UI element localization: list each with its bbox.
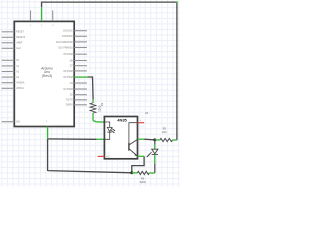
svg-text:D0/RX: D0/RX [66,105,73,107]
wire GND to opto cathode [48,138,97,140]
optocoupler U1 4N35 body [104,117,137,159]
resistor R1 220 [90,99,104,122]
wire 5V top to right rail [42,2,177,140]
label R2 1k [162,127,167,134]
svg-text:RESET2: RESET2 [16,37,26,39]
label R1 220 (rotated) [98,102,104,111]
right pins D13..D0 [74,31,87,105]
svg-text:D5 PWM: D5 PWM [63,77,72,79]
left pins RESET..N/C [2,32,15,122]
svg-text:D3 PWM: D3 PWM [63,89,72,91]
right pin labels [56,31,74,107]
label R3 220 [140,178,146,185]
opto LED arrow heads [113,129,115,133]
resistor R2 1k [155,138,177,141]
Arduino label [41,67,53,78]
svg-text:ioref: ioref [16,47,21,50]
svg-text:4N35: 4N35 [117,118,127,123]
resistor R3 220 [132,171,155,174]
arduino Uno (Rev3) module body [14,21,74,126]
svg-text:AREF: AREF [16,42,23,45]
top pin numbers [30,25,54,27]
pin base (red) [138,122,145,124]
left pin labels [16,32,26,124]
svg-text:D10 PWM/SS: D10 PWM/SS [59,47,74,49]
svg-text:D13/SCK: D13/SCK [63,31,73,33]
opto cathode stub [96,138,104,140]
pin emitter (green) [138,155,145,157]
pin 5V top (connected) [41,7,43,21]
transistor emitter arrow head [134,154,136,156]
wire opto emitter to bottom junction [132,156,144,173]
svg-text:(Rev3): (Rev3) [42,74,52,78]
svg-text:1kΩ: 1kΩ [162,131,167,134]
svg-text:D1/TX: D1/TX [66,100,73,102]
LED D1 [147,140,158,173]
pin GND bottom (connected) [47,127,49,140]
svg-text:D11 PWM/MOSI: D11 PWM/MOSI [56,42,73,44]
wire D5 to R1 [87,77,93,99]
svg-text:RESET: RESET [16,32,24,34]
node junction LED/R2 [153,138,156,141]
pin VIN top [52,10,54,21]
svg-text:A4/SDA: A4/SDA [16,82,25,85]
wire GND down to bottom rail [48,139,132,173]
svg-text:D12/MISO: D12/MISO [62,36,73,38]
pin collector (green) [138,138,145,140]
opto internal LED [104,122,115,139]
pin D5 (connected) [74,76,87,78]
pin NC (red) [98,155,105,157]
svg-text:N/C: N/C [16,122,20,124]
svg-text:220Ω: 220Ω [140,181,146,184]
svg-text:NC: NC [106,155,110,159]
node top-right corner dot [176,1,178,3]
svg-text:U1: U1 [145,111,149,115]
svg-text:D6 PWM: D6 PWM [63,71,72,73]
svg-text:D9 PWM: D9 PWM [63,54,72,56]
wire opto collector to LED node [144,138,155,141]
svg-text:A5/SCL: A5/SCL [16,87,25,90]
transistor Q internal [129,123,138,156]
node junction bottom [130,171,133,174]
pin 3V3 top [30,10,32,21]
